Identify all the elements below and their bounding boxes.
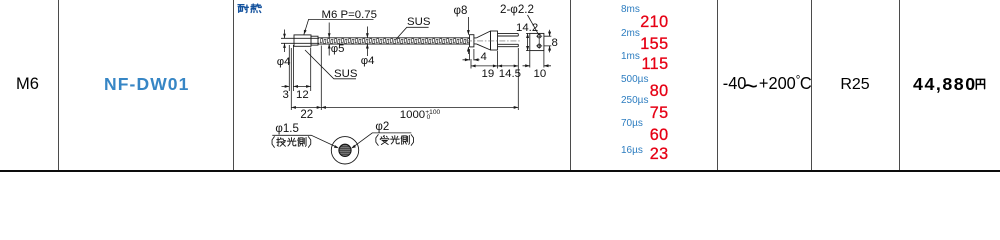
cell text ambient temperature -40 to +200 C [722,75,808,93]
drawing dimension texts [322,10,377,21]
corrugated tube texture [320,39,470,44]
fiber tip horizontal lines [281,38,319,43]
connector body [491,31,498,50]
table column border x=811 [811,0,812,171]
leader 2-phi2.2 [528,15,539,35]
arrowhead dim14.5 right [514,65,519,68]
dimension lines group [282,15,552,110]
arrowheads [283,30,551,149]
8 dim lines and extensions [544,30,551,53]
arrowhead dim3 [285,85,290,88]
arrowhead M6 leader [304,30,307,35]
cell text R25 [811,77,899,93]
table column border x=233 [233,0,234,171]
arrowhead phi8 top [467,30,470,35]
arrowhead phi4-mid top [366,33,369,38]
emitter-side label paren right [308,137,310,148]
corrugated tube top/bottom lines [318,38,470,44]
extension lines head dims [289,45,518,110]
fiber end detail: inner core [339,144,351,156]
arrowhead dim12 left [293,85,298,88]
cell text NF-DW01 [104,76,189,94]
cell text M6 [16,76,39,93]
arrowhead dim1000 left [321,106,326,109]
M6 label underline and leader [304,19,374,34]
dim line 4 [463,59,480,61]
end view hole center lines [536,33,542,49]
arrowhead phi5 bottom [328,44,331,49]
arrowhead dim19 right [493,65,498,68]
arrowhead dim10 right [544,64,549,67]
receiver-side kanji GAWA [401,135,409,144]
hole bottom [537,44,541,48]
phi5 dim arrow lines [328,23,330,56]
emitter-side kanji TOU [277,138,286,147]
dim line 3 and 12 [282,85,311,87]
emitter-side label paren left [272,137,274,148]
dim line 10 [523,65,552,67]
prongs [498,34,519,47]
response time labels (blue) and values (red) [621,5,640,15]
leader from phi2 label [353,133,412,148]
arrowhead dim14.2 top [526,33,529,38]
end ring (phi 8) [470,35,474,47]
emitter-side kanji GAWA [298,137,306,146]
table column border x=899 [899,0,900,171]
receiver-side kanji KOU [391,136,400,144]
dim line 22 and 1000 [291,106,518,108]
arrowhead phi4-left top [283,34,286,39]
phi8 dim arrow lines [467,17,469,54]
table column border x=570 [570,0,571,171]
10 dim extensions [530,51,544,68]
technical drawing SVG overlay [0,0,1000,173]
receiver-side label paren right [411,135,413,146]
arrowhead dim4 left [465,58,470,61]
arrowhead dim14.2 bottom [526,46,529,51]
14.2 dim line and extensions [526,33,530,50]
arrowhead dim8 top [548,32,551,37]
arrowhead phi4-mid bottom [366,44,369,49]
neck [474,38,477,44]
emitter-side kanji KOU [287,138,296,146]
arrowhead phi4-left bottom [283,43,286,48]
arrowhead emitter leader [334,145,339,148]
arrowhead dim22 right [317,106,322,109]
table bottom border [0,170,1000,173]
centerline through connector [466,40,521,42]
cell text price 44,880 yen [913,76,977,94]
phi4 mid dim arrow lines [366,27,368,57]
receiver-side kanji JU [380,135,389,144]
heat-resistant badge kanji TAI [238,5,248,13]
arrowhead dim10 left [525,64,530,67]
yen kanji EN [976,79,984,89]
ring 4mm extension lines [470,49,474,60]
arrowhead dim14.5 left [498,65,503,68]
collar [311,36,318,45]
arrowhead dim1000 right [514,106,519,109]
hole top [537,34,541,38]
phi4 left dim arrow lines [284,30,286,53]
arrowhead dim22 left [291,106,296,109]
dim line 19 and 14.5 [471,65,518,67]
arrowhead dim4 right [474,58,479,61]
connector cone [476,31,490,50]
arrowhead phi5 top [328,33,331,38]
heat-resistant badge kanji NETSU [251,4,261,12]
table column border x=58 [58,0,59,171]
arrowhead dim19 left [471,65,476,68]
M6 head block [294,35,311,46]
SUS bottom label underline and leader [305,50,356,79]
arrowhead dim8 bottom [548,46,551,51]
extension lines 19 and 14.5 [471,51,498,69]
leader from phi1.5 label [272,135,337,147]
fiber end detail: outer circle [331,137,358,164]
end view rectangle [530,33,544,50]
SUS top label underline and leader [396,27,429,39]
arrowhead receiver leader [351,145,356,149]
receiver-side label paren left [376,135,378,146]
arrowhead dim12 right [306,85,311,88]
wave dash of temperature range [741,74,760,99]
table column border x=717 [717,0,718,171]
arrowhead phi8 bottom [467,47,470,52]
